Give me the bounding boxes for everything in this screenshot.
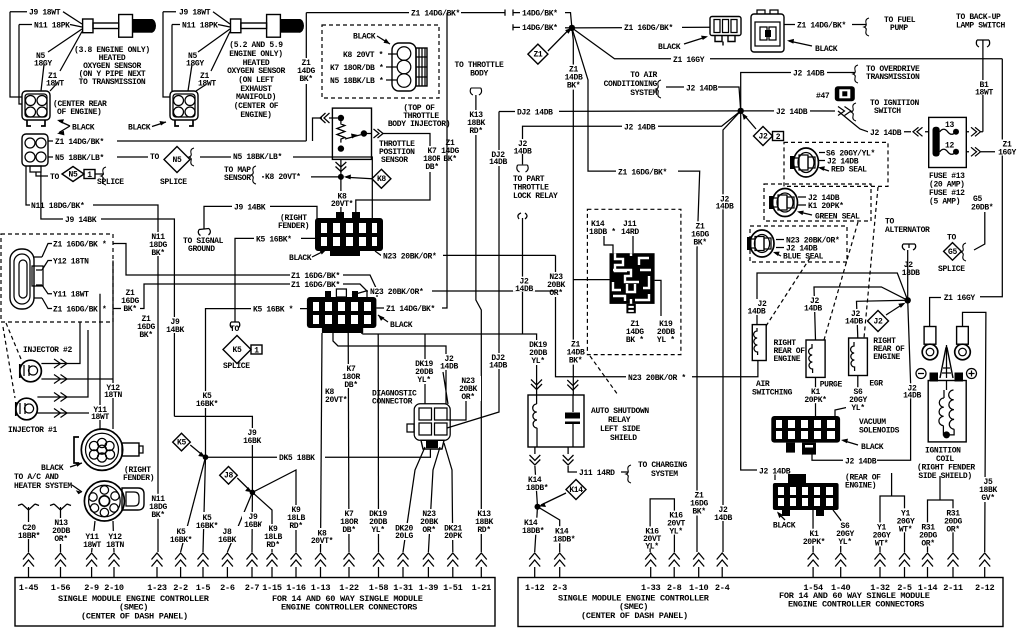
svg-text:J2 14DB: J2 14DB xyxy=(793,70,825,79)
SMEC pin 1-32 chevron and stub xyxy=(870,553,890,593)
caption right rear of engine 1 xyxy=(774,339,806,364)
svg-text:14BK: 14BK xyxy=(166,326,184,335)
svg-text:13: 13 xyxy=(945,121,954,130)
svg-text:OR*: OR* xyxy=(921,539,934,548)
svg-text:BODY INJECTOR): BODY INJECTOR) xyxy=(388,120,450,129)
wire J9 16BK horizontal and column xyxy=(174,416,263,492)
wire J2 to air switching solenoid xyxy=(747,273,908,325)
label BLACK E1 xyxy=(658,36,708,52)
ASD relay maze symbol xyxy=(610,253,655,313)
wire J2 14DB stub to lock relay (upper) xyxy=(511,111,741,172)
svg-text:BK*: BK* xyxy=(567,82,580,91)
svg-text:BK*: BK* xyxy=(299,75,312,84)
svg-text:N23 20BK/OR*: N23 20BK/OR* xyxy=(370,288,423,297)
label BLACK connector A xyxy=(289,250,326,263)
svg-text:14DB: 14DB xyxy=(515,285,533,294)
wire K16 jumper pins 1-33 2-8 xyxy=(641,499,688,552)
svg-text:Z1 16DG/BK *: Z1 16DG/BK * xyxy=(53,306,106,315)
caption to ignition switch xyxy=(870,99,920,116)
junction dot2 J8 xyxy=(250,490,256,496)
svg-text:20PK*: 20PK* xyxy=(804,396,826,405)
svg-text:CONNECTOR: CONNECTOR xyxy=(372,398,413,407)
junction dot1 K5 xyxy=(203,454,209,460)
svg-text:K7 18OR/DB *: K7 18OR/DB * xyxy=(330,64,383,73)
label Z1 14DG BK maze xyxy=(626,320,644,345)
label K14 18DB lead xyxy=(589,220,616,253)
throttle position sensor box xyxy=(332,108,371,159)
SMEC pin 1-14 chevron and stub xyxy=(918,553,938,593)
junction dot3 J2 xyxy=(905,297,911,303)
label K7 18OR DB stack xyxy=(421,146,443,172)
wire N23 20BK/OR from connector B top xyxy=(352,287,556,297)
svg-text:K1 20PK*: K1 20PK* xyxy=(808,202,844,211)
svg-text:BK *: BK * xyxy=(626,336,644,345)
caption to A/C and heater system xyxy=(14,473,82,494)
svg-text:DB*: DB* xyxy=(342,526,355,535)
svg-text:1-56: 1-56 xyxy=(51,583,71,593)
dashed lead to ASD box xyxy=(590,356,618,395)
diagnostic connector symbol xyxy=(407,404,450,449)
svg-text:CONDITIONING: CONDITIONING xyxy=(604,80,658,89)
SMEC pin 2-2 chevron and stub xyxy=(173,553,188,593)
SMEC connector box left xyxy=(15,578,495,627)
svg-text:J2 14DB: J2 14DB xyxy=(624,123,656,132)
svg-text:YL *: YL * xyxy=(657,336,675,345)
caption center rear of engine xyxy=(53,100,107,117)
caption right rear of engine 2 xyxy=(873,337,905,362)
60-way connector B black grid xyxy=(307,289,377,333)
SMEC pin 1-10 chevron and stub xyxy=(689,553,709,593)
wire N11 18DG/BK long xyxy=(26,166,158,552)
svg-text:18BR*: 18BR* xyxy=(18,532,40,541)
svg-text:14DB: 14DB xyxy=(845,318,863,327)
label K19 20DB YL maze xyxy=(657,320,675,345)
svg-text:J2 14DB: J2 14DB xyxy=(686,84,718,93)
splice diamond Z1 xyxy=(528,28,572,64)
svg-text:K5: K5 xyxy=(233,346,242,355)
svg-text:18DB: 18DB xyxy=(902,269,920,278)
label BLACK C1/C2 fork xyxy=(57,119,95,135)
splice diamond K5 xyxy=(173,433,206,457)
wire connector B to pin 1-58 DK19 xyxy=(366,334,390,552)
svg-text:18DB *: 18DB * xyxy=(589,228,616,237)
wire Z1 16GY to coil primary xyxy=(930,294,976,327)
TPS wiper out arrows xyxy=(356,129,430,220)
wire J2 14DB to pin 2-4 xyxy=(712,111,741,552)
svg-text:20LG: 20LG xyxy=(395,532,413,541)
label BLACK E2 xyxy=(787,39,838,54)
svg-text:RD*: RD* xyxy=(289,522,302,531)
SMEC pin 1-23 chevron and stub xyxy=(147,553,167,593)
svg-text:K8: K8 xyxy=(377,175,386,184)
wire DJ2 14DB long line xyxy=(499,107,741,117)
SMEC pin 2-5 chevron and stub xyxy=(897,553,912,593)
svg-text:16BK: 16BK xyxy=(218,536,236,545)
blue seal connector xyxy=(747,230,774,257)
svg-text:16BK: 16BK xyxy=(243,437,261,446)
svg-text:18WT: 18WT xyxy=(975,89,993,98)
svg-text:2-8: 2-8 xyxy=(667,583,682,593)
SMEC pin 2-11 chevron and stub xyxy=(943,553,963,593)
label Z1 16DG BK stack 2 xyxy=(136,314,156,340)
svg-text:1-51: 1-51 xyxy=(443,583,463,593)
SMEC pin 2-7 chevron and stub xyxy=(245,553,260,593)
svg-text:1-22: 1-22 xyxy=(339,583,359,593)
svg-text:ALTERNATOR: ALTERNATOR xyxy=(885,226,930,235)
svg-text:14DB: 14DB xyxy=(714,514,732,523)
svg-text:BK*: BK* xyxy=(692,508,705,517)
wire J2 to EGR solenoid xyxy=(845,300,908,338)
svg-text:SENSOR: SENSOR xyxy=(381,156,408,165)
label DK19 stack at ASD xyxy=(527,340,550,366)
oxygen sensor 1 symbol xyxy=(83,15,156,38)
svg-text:OF ENGINE): OF ENGINE) xyxy=(57,108,102,117)
ignition coil body xyxy=(928,373,966,442)
svg-text:16BK*: 16BK* xyxy=(196,400,218,409)
fuel pump connector E2 xyxy=(751,10,784,52)
dashed leads to injectors xyxy=(3,323,21,398)
svg-text:Z1 16GY: Z1 16GY xyxy=(673,56,705,65)
junction dot2 J2 xyxy=(738,108,744,114)
svg-text:K8 20VT*: K8 20VT* xyxy=(265,173,301,182)
auto shutdown relay box xyxy=(528,395,584,447)
svg-text:BK*: BK* xyxy=(123,305,136,314)
diagnostic connector caption xyxy=(372,390,417,407)
ASD relay dashed box xyxy=(587,209,681,354)
EGR solenoid xyxy=(849,338,868,376)
round connector D1 right fender xyxy=(74,429,143,470)
wire connector B to pin 1-13 xyxy=(310,333,347,552)
SMEC pin 1-31 chevron and stub xyxy=(393,553,413,593)
wire ASD pin J11 down xyxy=(563,447,631,483)
svg-text:N11 18PK: N11 18PK xyxy=(182,22,218,31)
svg-text:BLACK: BLACK xyxy=(658,43,681,52)
stub C20 18BR pin 1-45 xyxy=(17,504,43,552)
svg-text:(5.2 AND 5.9: (5.2 AND 5.9 xyxy=(229,41,283,50)
svg-text:YL*: YL* xyxy=(645,542,658,551)
svg-text:TO: TO xyxy=(150,153,159,162)
svg-text:BLACK: BLACK xyxy=(390,321,413,330)
SMEC pin 2-12 chevron and stub xyxy=(975,553,995,593)
svg-text:BK*: BK* xyxy=(693,238,706,247)
svg-text:20VT*: 20VT* xyxy=(311,537,333,546)
wire J2 14DB to fuse 13 xyxy=(838,111,929,138)
svg-text:BK*: BK* xyxy=(443,155,456,164)
svg-text:TO: TO xyxy=(947,234,956,243)
svg-text:EGR: EGR xyxy=(869,380,883,389)
green seal connector xyxy=(769,189,798,217)
wire Y12 18TN pin xyxy=(42,258,89,271)
svg-text:BLACK: BLACK xyxy=(815,45,838,54)
distributor connector symbol xyxy=(10,249,43,309)
svg-text:14DB: 14DB xyxy=(804,305,822,314)
svg-text:18DB*: 18DB* xyxy=(522,527,544,536)
wire Z1 16DG/BK lower horizontal xyxy=(113,280,367,309)
svg-text:2-9: 2-9 xyxy=(84,583,99,593)
svg-text:YL*: YL* xyxy=(669,528,682,537)
SMEC pin 1-13 chevron and stub xyxy=(311,553,331,593)
wire Z1 16GY vertical right xyxy=(980,59,1019,297)
wire J2 14DB to vacuum solenoid connector xyxy=(741,111,791,480)
svg-text:2-6: 2-6 xyxy=(220,583,235,593)
wire diagnostic to pin 1-39 N23 xyxy=(417,447,441,552)
label Z1 14DG BK stack (column x447) xyxy=(440,138,460,164)
splice callout K5|1 xyxy=(223,325,262,371)
wire N23 from diagnostic to N23 line xyxy=(447,376,481,420)
svg-text:SYSTEM: SYSTEM xyxy=(630,89,657,98)
14-pin rear engine connector xyxy=(773,474,839,516)
svg-text:FENDER): FENDER) xyxy=(123,474,154,483)
splice diamond J8 xyxy=(220,467,253,493)
wire K1 to pin 1-54 xyxy=(800,510,828,552)
caption rear of engine xyxy=(845,474,881,491)
label J11 14RD lead xyxy=(621,220,639,253)
svg-text:16BK*: 16BK* xyxy=(170,536,192,545)
svg-text:20VT*: 20VT* xyxy=(325,396,347,405)
svg-text:DK5 18BK: DK5 18BK xyxy=(279,454,315,463)
wire J2 14DB dot3 down to vacuum connector xyxy=(812,300,923,466)
wire N11 18PK (sensor 1) xyxy=(19,22,82,105)
plus symbol xyxy=(967,369,977,379)
svg-text:18WT: 18WT xyxy=(198,80,216,89)
TBI 3-pin injector connector xyxy=(392,43,427,91)
wire Y11 18WT pin xyxy=(42,285,89,300)
blue seal labels xyxy=(773,237,839,262)
SMEC pin 2-6 chevron and stub xyxy=(220,553,235,593)
svg-text:J2 14DB: J2 14DB xyxy=(870,129,902,138)
map sensor callout and wire K8 20VT xyxy=(224,166,341,184)
svg-text:BK*: BK* xyxy=(139,331,152,340)
svg-text:GREEN SEAL: GREEN SEAL xyxy=(815,213,860,222)
svg-text:FENDER): FENDER) xyxy=(278,222,309,231)
svg-text:12: 12 xyxy=(945,142,954,151)
wire J5 18BK GV from coil to pin 2-12 xyxy=(963,312,1001,552)
wire connector B to pin 1-22 K7 xyxy=(338,333,361,552)
svg-text:2-3: 2-3 xyxy=(552,583,567,593)
svg-text:1-12: 1-12 xyxy=(525,583,545,593)
svg-text:18GY: 18GY xyxy=(34,60,52,69)
svg-text:MANIFOLD): MANIFOLD) xyxy=(236,93,276,102)
svg-text:Z1 16DG/BK*: Z1 16DG/BK* xyxy=(624,24,673,33)
wire K13 18BK RD column xyxy=(466,88,495,552)
wire dot4 to pin 1-12 xyxy=(522,507,552,552)
air switching solenoid xyxy=(752,325,766,361)
wire N5 18BK/LB from C2 xyxy=(48,153,148,163)
svg-text:J8: J8 xyxy=(224,472,233,481)
splice callout N5 (map row) xyxy=(150,147,194,188)
svg-text:Z1 14DG/BK*: Z1 14DG/BK* xyxy=(55,138,104,147)
svg-text:N11 18PK: N11 18PK xyxy=(34,22,70,31)
svg-text:ENGINE): ENGINE) xyxy=(240,111,271,120)
oxygen sensor 2 symbol xyxy=(231,15,305,38)
svg-text:PUMP: PUMP xyxy=(890,24,908,33)
TBI pin N5 18BK/LB xyxy=(330,77,397,86)
svg-text:SPLICE: SPLICE xyxy=(938,265,965,274)
svg-text:YL*: YL* xyxy=(851,404,864,413)
svg-text:K8 20VT *: K8 20VT * xyxy=(343,51,383,60)
caption to back-up lamp switch xyxy=(956,13,1006,31)
splice diamond J2|2 xyxy=(742,113,784,146)
wire dot1 to pin 2-2 xyxy=(168,457,206,552)
wires D2 to pins 2-9 2-10 xyxy=(82,521,128,552)
caption to alternator xyxy=(885,218,930,251)
4-pin connector C2 xyxy=(22,134,48,172)
svg-text:TO CHARGING: TO CHARGING xyxy=(638,461,688,470)
svg-text:TO: TO xyxy=(230,325,239,334)
svg-text:20VT*: 20VT* xyxy=(331,200,353,209)
svg-text:SPLICE: SPLICE xyxy=(160,178,187,187)
svg-text:N5 18BK/LB *: N5 18BK/LB * xyxy=(330,77,383,86)
SMEC pin 1-54 chevron and stub xyxy=(803,553,823,593)
fuel pump connector E1 xyxy=(710,17,741,46)
svg-text:LAMP SWITCH: LAMP SWITCH xyxy=(956,22,1006,31)
SMEC pin 1-5 chevron and stub xyxy=(196,553,211,593)
svg-text:2-5: 2-5 xyxy=(897,583,912,593)
wire Z1 16DG/BK right to fuel pump connector xyxy=(572,23,710,33)
splice diamond K8 xyxy=(344,169,391,188)
caption to fuel pump xyxy=(884,16,916,33)
svg-text:Z1 14DG/BK*: Z1 14DG/BK* xyxy=(797,22,846,31)
svg-text:SPLICE: SPLICE xyxy=(97,178,124,187)
label BLACK D1 xyxy=(41,462,82,473)
splice diamond G5 xyxy=(938,234,965,275)
SMEC pin 1-51 chevron and stub xyxy=(443,553,463,593)
svg-text:OR*: OR* xyxy=(549,289,562,298)
svg-text:BK*: BK* xyxy=(151,511,164,520)
svg-text:ENGINE CONTROLLER CONNECTORS: ENGINE CONTROLLER CONNECTORS xyxy=(788,600,924,610)
svg-text:(ON LEFT: (ON LEFT xyxy=(238,76,274,85)
svg-text:18TN: 18TN xyxy=(106,541,124,550)
svg-text:1-58: 1-58 xyxy=(369,583,389,593)
svg-text:1-14: 1-14 xyxy=(918,583,938,593)
svg-text:14DB: 14DB xyxy=(903,392,921,401)
svg-text:G5: G5 xyxy=(948,248,957,257)
splice diamond K14 xyxy=(539,480,586,508)
caption fuse 13 fuse 12 xyxy=(929,172,965,207)
svg-text:OXYGEN SENSOR: OXYGEN SENSOR xyxy=(227,67,285,76)
injector 2 wires xyxy=(41,322,113,384)
svg-text:2-10: 2-10 xyxy=(104,583,124,593)
svg-text:20DB*: 20DB* xyxy=(971,204,993,213)
svg-text:(CENTER OF: (CENTER OF xyxy=(234,102,279,111)
caption to part throttle lock relay xyxy=(513,175,558,201)
svg-text:#47: #47 xyxy=(816,92,830,101)
svg-text:14DB: 14DB xyxy=(514,148,532,157)
svg-text:2: 2 xyxy=(776,133,781,142)
svg-text:N23 20BK/OR *: N23 20BK/OR * xyxy=(628,374,686,383)
wire J2 from connector B to diagnostic xyxy=(333,333,460,404)
label BLACK connector B xyxy=(378,315,413,330)
svg-text:14RD: 14RD xyxy=(621,228,639,237)
svg-text:BLACK: BLACK xyxy=(289,254,312,263)
splice callout N5|1 xyxy=(36,167,124,188)
caption auto shutdown relay left side shield xyxy=(591,407,649,443)
svg-text:14DG/BK*: 14DG/BK* xyxy=(522,24,558,33)
wire N23 20BK/OR from connector A xyxy=(375,251,556,261)
svg-text:DJ2 14DB: DJ2 14DB xyxy=(517,109,553,118)
SMEC pin 1-39 chevron and stub xyxy=(419,553,439,593)
svg-text:ENGINE: ENGINE xyxy=(774,355,801,364)
svg-text:Y12 18TN: Y12 18TN xyxy=(53,258,89,267)
svg-text:1-45: 1-45 xyxy=(19,583,39,593)
svg-text:TO: TO xyxy=(50,173,59,182)
svg-text:1-5: 1-5 xyxy=(196,583,211,593)
svg-text:BK*: BK* xyxy=(151,249,164,258)
svg-text:SWITCH: SWITCH xyxy=(874,107,901,116)
svg-text:WT*: WT* xyxy=(875,539,888,548)
svg-text:J11 14RD: J11 14RD xyxy=(579,469,615,478)
wire J2 14DB to ignition switch xyxy=(741,103,856,121)
svg-text:(5 AMP): (5 AMP) xyxy=(929,198,960,207)
svg-text:SHIELD: SHIELD xyxy=(610,434,637,443)
dashed lead blue seal to air switching xyxy=(766,258,810,326)
label J9 14BK stack xyxy=(166,317,186,335)
svg-text:OR*: OR* xyxy=(422,526,435,535)
wire J9 18WT (sensor 2) xyxy=(163,9,230,98)
wire 14DG/BK to junction dot (upper) xyxy=(513,9,572,28)
svg-text:YL*: YL* xyxy=(417,376,430,385)
svg-text:18DB*: 18DB* xyxy=(526,484,548,493)
svg-text:J2: J2 xyxy=(874,318,883,327)
svg-text:J2 14DB: J2 14DB xyxy=(759,467,791,476)
wire Z1 16GY rail to right xyxy=(572,28,1002,65)
wire fuse12 out to Z1 16GY xyxy=(966,147,1002,156)
wire J2 14DB to A/C bracket xyxy=(656,80,741,111)
wire J9 14BK long xyxy=(41,172,175,416)
label BLACK TBI xyxy=(353,33,390,45)
svg-text:18GY: 18GY xyxy=(186,60,204,69)
SMEC connector box right xyxy=(518,578,1003,627)
injector 1 wires xyxy=(37,330,100,418)
svg-text:N11 18DG/BK*: N11 18DG/BK* xyxy=(31,202,84,211)
60-way connector A black grid xyxy=(315,212,383,256)
wire dot2 to pin 1-15 K9 xyxy=(252,492,285,552)
SMEC pin 2-4 chevron and stub xyxy=(715,553,730,593)
SMEC pin 2-9 chevron and stub xyxy=(84,553,99,593)
wire diagnostic to pin 1-31 DK20 xyxy=(391,447,425,552)
svg-text:(CENTER OF DASH PANEL): (CENTER OF DASH PANEL) xyxy=(81,612,188,622)
svg-text:BLACK: BLACK xyxy=(773,522,796,531)
junction dot4 K14 xyxy=(535,504,541,510)
svg-text:RD*: RD* xyxy=(469,127,482,136)
dashed lead green seal to purge xyxy=(824,222,858,340)
svg-text:ENGINE ONLY): ENGINE ONLY) xyxy=(229,50,282,59)
wire Z1 18WT (sensor 2) xyxy=(196,32,230,92)
svg-text:Z1 16DG/BK*: Z1 16DG/BK* xyxy=(618,168,667,177)
caption 3.8 engine heated oxygen sensor xyxy=(74,46,150,87)
svg-text:14DB: 14DB xyxy=(489,362,507,371)
caption to overdrive transmission xyxy=(866,65,920,82)
label BLACK 14-pin xyxy=(773,512,796,531)
svg-text:SENSOR: SENSOR xyxy=(224,174,251,183)
wire dot2 to pin 2-6 xyxy=(214,492,252,552)
svg-text:SYSTEM: SYSTEM xyxy=(651,470,678,479)
caption right fender xyxy=(123,466,154,483)
label throttle position sensor xyxy=(379,140,415,165)
junction dot1 Z1 xyxy=(569,25,575,31)
wire J2 14DB from lock relay bracket to ASD pin1 xyxy=(513,213,535,334)
svg-text:2-12: 2-12 xyxy=(975,583,995,593)
svg-text:K5 16BK*: K5 16BK* xyxy=(256,236,292,245)
wire N23 column to solenoid line xyxy=(546,255,758,382)
wire S6 to pin 1-40 xyxy=(833,510,857,552)
svg-text:2-4: 2-4 xyxy=(715,583,730,593)
svg-text:BLACK: BLACK xyxy=(72,124,95,133)
svg-text:2-2: 2-2 xyxy=(173,583,188,593)
svg-text:OR*: OR* xyxy=(946,525,959,534)
icon #47 xyxy=(816,86,855,101)
svg-text:INJECTOR #2: INJECTOR #2 xyxy=(23,346,73,355)
